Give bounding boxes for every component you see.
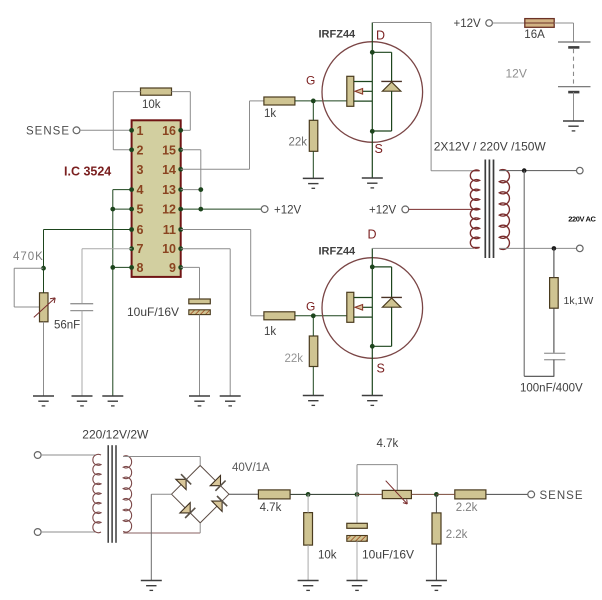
label 12V battery — [506, 67, 527, 81]
node junction pin12 — [198, 207, 203, 212]
transistor Q1 IRFZ44 circle — [322, 42, 423, 143]
node Q1 source junction — [370, 129, 375, 134]
svg-text:D: D — [368, 228, 377, 242]
wire pin4 net vertical (pins 4,5,8 to ground) — [113, 190, 132, 396]
wire fuse to battery — [556, 23, 574, 42]
ground 10uF upper — [189, 396, 210, 406]
wire TR2 secondary bottom to bridge — [123, 523, 200, 533]
node junction secondary top — [522, 168, 527, 173]
svg-text:G: G — [306, 74, 315, 88]
transformer TR2 primary coil — [93, 454, 101, 532]
svg-text:1k,1W: 1k,1W — [564, 295, 594, 307]
svg-text:10k: 10k — [142, 99, 161, 111]
wire +12V to fuse — [492, 22, 524, 24]
wire TR2 primary bottom lead — [41, 531, 96, 533]
node +12V terminal (pin12) — [261, 206, 268, 213]
svg-text:4: 4 — [137, 183, 144, 197]
label 16A — [524, 29, 545, 41]
svg-text:11: 11 — [163, 223, 176, 237]
node TR2 primary terminal bottom — [34, 529, 41, 536]
wire battery dashed — [573, 49, 575, 85]
battery 12V cell 2 — [558, 87, 591, 92]
node output terminal top — [577, 167, 584, 174]
label 1k upper — [264, 108, 276, 120]
node TR2 primary terminal top — [34, 452, 41, 459]
wire 4.7k to 10k node — [290, 493, 308, 495]
wire pin11 to 1k lower — [181, 230, 264, 316]
resistor 10k lower — [304, 494, 313, 580]
ground bridge — [141, 581, 162, 591]
node Q2 source junction — [370, 344, 375, 349]
svg-text:1: 1 — [137, 124, 144, 138]
potentiometer 4.7k body — [357, 490, 436, 498]
ground pin10 — [220, 396, 241, 406]
label 10k lower — [318, 550, 337, 562]
svg-text:+12V: +12V — [454, 18, 482, 30]
label 470K — [13, 251, 44, 263]
fuse 16A — [525, 19, 556, 28]
svg-text:12: 12 — [162, 203, 176, 217]
label IRFZ44 lower — [319, 246, 357, 258]
Q2 gate bar — [347, 292, 354, 322]
node +12V battery terminal — [486, 20, 493, 27]
Q1 gate bar — [347, 76, 354, 106]
label 10k — [142, 99, 161, 111]
svg-text:4.7k: 4.7k — [260, 502, 282, 514]
svg-text:S: S — [377, 362, 385, 376]
label G lower — [306, 300, 315, 314]
svg-text:5: 5 — [137, 203, 144, 217]
wire secondary top output — [499, 170, 576, 172]
capacitor 10uF/16V electrolytic (pin9) — [189, 299, 211, 396]
diode D4 bridge bottom-right — [212, 496, 227, 511]
node junction secondary bottom — [552, 246, 557, 251]
svg-text:SENSE: SENSE — [540, 490, 584, 502]
wire Q1 drain to transformer primary top — [372, 23, 473, 171]
wire 1k to gate node upper — [295, 100, 347, 102]
wire bridge negative to ground — [151, 494, 171, 580]
svg-text:3: 3 — [137, 163, 144, 177]
label 4.7k pot — [377, 438, 399, 450]
battery 12V cell 1 — [558, 42, 591, 47]
wire center tap to transformer — [409, 208, 474, 210]
svg-text:15: 15 — [162, 143, 176, 157]
label 4.7k series — [260, 502, 282, 514]
wire 10k left lead down to pin 2 — [113, 92, 131, 150]
node Q1 drain junction — [370, 50, 375, 55]
svg-text:IRFZ44: IRFZ44 — [319, 246, 357, 258]
transformer TR1 primary leads — [474, 171, 480, 249]
resistor 2.2k horizontal — [436, 490, 528, 499]
wire 10k right lead down to pin 16 — [181, 92, 191, 131]
svg-text:+12V: +12V — [274, 205, 302, 217]
ground 10k lower — [298, 581, 319, 591]
wire TR2 secondary top to bridge — [123, 457, 200, 466]
svg-text:14: 14 — [162, 163, 176, 177]
label 220V AC — [568, 215, 596, 224]
svg-text:220/12V/2W: 220/12V/2W — [82, 428, 149, 442]
wire pin7 to 56nF — [82, 249, 132, 304]
transformer TR1 primary coil — [470, 170, 479, 248]
resistor 22k upper — [309, 101, 318, 178]
label 40V/1A — [232, 462, 270, 474]
svg-text:SENSE: SENSE — [26, 126, 70, 138]
svg-text:2.2k: 2.2k — [456, 502, 478, 514]
svg-text:2X12V / 220V /150W: 2X12V / 220V /150W — [434, 139, 547, 153]
label 220/12V/2W — [82, 428, 149, 442]
ground 470K — [33, 396, 54, 406]
transformer TR1 secondary coil — [499, 170, 509, 250]
label +12V center tap — [369, 205, 397, 217]
svg-text:10k: 10k — [318, 550, 337, 562]
diode D3 bridge bottom-left — [180, 503, 195, 518]
transformer TR2 core — [108, 445, 116, 543]
ground pin4-net — [102, 396, 123, 406]
resistor 1k 1W — [550, 248, 559, 353]
svg-text:100nF/400V: 100nF/400V — [520, 383, 583, 395]
Q1 body diode — [372, 52, 402, 131]
ground 22k upper — [303, 178, 324, 188]
bridge rectifier frame 40V/1A — [172, 466, 230, 523]
transformer TR1 core — [485, 160, 493, 259]
wire 1k to gate node lower — [295, 315, 347, 317]
label 2X12V / 220V /150W — [434, 139, 547, 153]
ground 10uF lower — [347, 581, 368, 591]
capacitor 56nF — [70, 304, 93, 396]
svg-text:13: 13 — [162, 183, 176, 197]
label S upper — [375, 142, 383, 156]
wire bridge positive output — [229, 493, 258, 495]
diode D2 bridge top-right — [210, 475, 225, 490]
label 2.2k vertical — [446, 529, 468, 541]
resistor 22k lower — [309, 316, 318, 396]
Q1 drain-source vertical wire — [371, 23, 373, 179]
label IRFZ44 upper — [319, 28, 357, 40]
resistor 4.7k series — [258, 490, 290, 499]
label G upper — [306, 74, 315, 88]
svg-text:12V: 12V — [506, 67, 527, 81]
node junction 10k — [306, 492, 311, 497]
label 10uF/16V upper — [127, 305, 179, 319]
ground Q2 source — [362, 396, 383, 406]
transformer TR2 secondary coil — [123, 456, 131, 532]
capacitor 10uF/16V lower — [347, 494, 368, 580]
wire secondary bottom output — [499, 247, 576, 249]
Q2 channel stubs — [354, 298, 373, 318]
svg-text:I.C 3524: I.C 3524 — [64, 165, 111, 179]
label D lower — [368, 228, 377, 242]
wire 470K wiper loop — [14, 268, 43, 307]
op-amp U1 IC 3524 body with pin numbers 1-16 — [132, 120, 181, 277]
svg-text:8: 8 — [137, 261, 144, 275]
ground 2.2k — [426, 581, 447, 591]
svg-text:1k: 1k — [264, 326, 276, 338]
svg-text:40V/1A: 40V/1A — [232, 462, 270, 474]
label 1k,1W — [564, 295, 594, 307]
node junction pin8 — [110, 265, 115, 270]
potentiometer 470K body — [40, 268, 49, 396]
node junction 470K top — [41, 266, 46, 271]
wire pin12 to +12V terminal — [181, 208, 262, 210]
svg-text:D: D — [376, 29, 385, 43]
U1 pin junction dots — [129, 128, 183, 270]
svg-text:S: S — [375, 142, 383, 156]
node SENSE input terminal — [26, 126, 80, 138]
node output terminal bottom — [577, 245, 584, 252]
resistor 2.2k vertical — [432, 494, 441, 580]
svg-text:1k: 1k — [264, 108, 276, 120]
ground battery — [563, 121, 584, 131]
svg-text:4.7k: 4.7k — [377, 438, 399, 450]
svg-text:+12V: +12V — [369, 205, 397, 217]
wire pin14 to 1k upper — [181, 101, 264, 169]
label 22k upper — [289, 136, 308, 148]
node junction pin5 — [110, 207, 115, 212]
svg-text:22k: 22k — [285, 353, 304, 365]
wire SENSE to U1 pin 1 — [80, 129, 132, 131]
node +12V terminal (center tap) — [402, 206, 409, 213]
diode D1 bridge top-left — [176, 474, 191, 489]
resistor 1k lower gate — [264, 312, 295, 320]
wire pin10 to ground — [181, 249, 231, 396]
svg-text:G: G — [306, 300, 315, 314]
label 2.2k horizontal — [456, 502, 478, 514]
label 22k lower — [285, 353, 304, 365]
svg-text:470K: 470K — [13, 251, 44, 263]
node junction 10uF — [355, 492, 360, 497]
svg-text:22k: 22k — [289, 136, 308, 148]
label +12V pin12 — [274, 205, 302, 217]
svg-text:2.2k: 2.2k — [446, 529, 468, 541]
label SENSE output — [540, 490, 584, 502]
label D upper — [376, 29, 385, 43]
label S lower — [377, 362, 385, 376]
svg-text:56nF: 56nF — [54, 320, 80, 332]
svg-text:7: 7 — [137, 242, 144, 256]
label 1k lower — [264, 326, 276, 338]
ground 56nF — [72, 396, 93, 406]
ground Q1 source — [362, 178, 383, 188]
ground 22k lower — [303, 396, 324, 406]
wire 10k node to 10uF node — [308, 493, 357, 495]
node junction pin13 — [198, 187, 203, 192]
wire battery to ground — [573, 92, 575, 121]
label 10uF/16V lower — [362, 547, 414, 561]
Q1 channel stubs — [354, 82, 373, 102]
wire Q2 drain to transformer primary bottom — [372, 247, 473, 249]
label +12V battery — [454, 18, 482, 30]
label 100nF/400V — [520, 383, 583, 395]
resistor 10k (pin2-pin16) — [113, 88, 190, 95]
node gate junction lower — [311, 313, 316, 318]
resistor 1k upper gate — [264, 97, 295, 105]
transistor Q2 IRFZ44 circle — [322, 258, 423, 359]
wire TR2 primary top lead — [41, 454, 96, 456]
capacitor 100nF/400V — [544, 353, 565, 376]
svg-text:10: 10 — [162, 242, 176, 256]
node gate junction upper — [311, 99, 316, 104]
svg-text:6: 6 — [137, 223, 144, 237]
wire pin15-13-12 net — [181, 150, 201, 209]
svg-text:2: 2 — [137, 143, 144, 157]
label 56nF — [54, 320, 80, 332]
svg-text:220V AC: 220V AC — [568, 215, 596, 224]
Q2 drain-source vertical wire — [371, 248, 373, 395]
label I.C 3524 — [64, 165, 111, 179]
svg-text:9: 9 — [169, 261, 176, 275]
wire pin6 to 470K pot — [44, 230, 132, 269]
wire pot wiper loop — [357, 465, 397, 495]
svg-text:16A: 16A — [524, 29, 545, 41]
node junction 2.2k — [434, 492, 439, 497]
svg-text:10uF/16V: 10uF/16V — [127, 305, 179, 319]
node SENSE output terminal — [528, 491, 535, 498]
potentiometer 470K wiper arrow — [34, 298, 55, 318]
svg-text:10uF/16V: 10uF/16V — [362, 547, 414, 561]
wire snubber return — [524, 171, 554, 377]
potentiometer 4.7k wiper arrow — [386, 481, 408, 504]
node Q2 drain junction — [370, 265, 375, 270]
wire pin9 to 10uF cap — [181, 267, 200, 299]
Q2 body diode — [372, 267, 402, 346]
svg-text:16: 16 — [162, 124, 176, 138]
svg-text:IRFZ44: IRFZ44 — [319, 28, 357, 40]
